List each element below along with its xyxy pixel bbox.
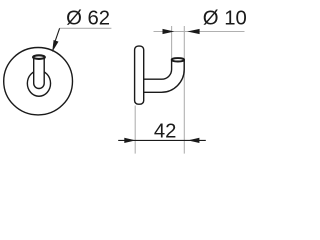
svg-text:Ø 10: Ø 10 bbox=[203, 7, 247, 29]
svg-text:42: 42 bbox=[154, 120, 177, 142]
svg-text:Ø 62: Ø 62 bbox=[66, 7, 110, 29]
